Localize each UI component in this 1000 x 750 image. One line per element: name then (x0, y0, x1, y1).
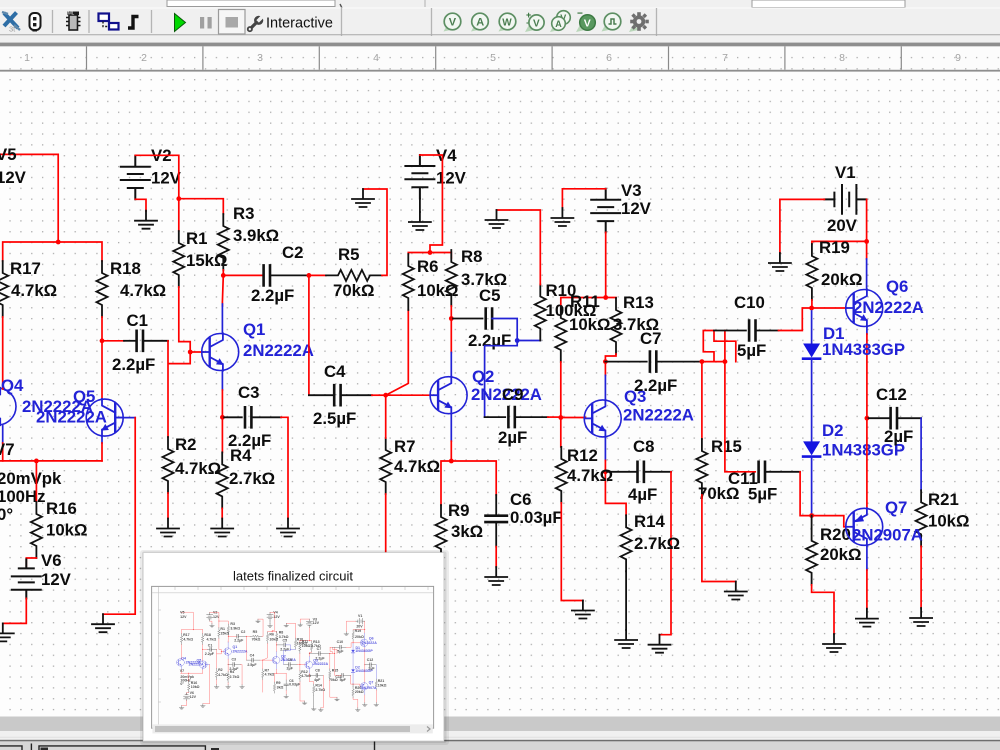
inset mini circuit (177, 610, 387, 711)
wire D2 to R20 node (811, 457, 813, 516)
node Q1 emitter junction (220, 415, 225, 420)
node R19 top junction (864, 239, 869, 244)
svg-text:12V: 12V (621, 199, 652, 218)
design tab 3 (211, 742, 375, 750)
resistor R10 100k (535, 281, 596, 341)
svg-text:C7: C7 (640, 329, 661, 348)
INSET PANEL (140, 550, 449, 745)
svg-text:20kΩ: 20kΩ (821, 270, 862, 289)
ground below R14 (615, 630, 637, 648)
transistor Q6 2N2222A (846, 277, 924, 327)
svg-text:10kΩ: 10kΩ (928, 512, 969, 531)
wire R12 top (560, 418, 562, 447)
transistor Q5 2N2222A mirrored (36, 387, 123, 436)
node C5/R10 blue junction (515, 338, 520, 343)
svg-text:12V: 12V (41, 570, 72, 589)
node V3 rail junction (603, 295, 608, 300)
icon pause (200, 17, 212, 29)
node Q2 emitter junction (449, 459, 454, 464)
resistor R5 70k (326, 245, 382, 300)
svg-text:R3: R3 (233, 204, 254, 223)
battery V2 (121, 146, 182, 199)
svg-text:1N4383GP: 1N4383GP (822, 340, 905, 359)
resistor R2 4.7k (163, 435, 222, 493)
svg-text:2.2µF: 2.2µF (251, 286, 294, 305)
capacitor C10 5uF (734, 293, 766, 360)
svg-text:12V: 12V (151, 169, 182, 188)
node C12 junction (865, 416, 870, 421)
svg-text:1: 1 (24, 52, 30, 64)
svg-text:Q5: Q5 (73, 387, 95, 406)
node V2 rail junction (176, 196, 181, 201)
wire R14 bottom to ground (625, 571, 627, 630)
wire C5 right blue to R10 bottom (485, 319, 541, 418)
wire R3 bottom to C2 (223, 270, 263, 275)
wire Q4 emitter to V7 rail (2, 426, 4, 461)
node R12/Q3 base junction (558, 415, 563, 420)
wire R18 to Q5 collector (101, 317, 103, 399)
ground below R21 (910, 608, 932, 626)
svg-text:V6: V6 (41, 551, 62, 570)
wire Q7 emitter top (866, 418, 868, 508)
transistor Q3 2N2222A (584, 387, 694, 437)
wire V2 minus jog to ground (135, 199, 146, 211)
svg-text:0.03µF: 0.03µF (510, 508, 563, 527)
svg-text:4.7kΩ: 4.7kΩ (11, 281, 57, 300)
wire R20 bottom to ground (812, 585, 834, 634)
wire Q3 collector (604, 362, 606, 400)
RULER (0, 46, 1000, 71)
svg-text:2.7kΩ: 2.7kΩ (634, 534, 680, 553)
wire V2 plus rail to R1 and R3 (135, 155, 223, 231)
wire C5 left lead (451, 318, 482, 320)
wire C8 right down to ground (644, 472, 671, 635)
icon hierarchy (99, 14, 119, 30)
wire C12 left lead (867, 417, 891, 419)
status divider line (0, 740, 1000, 742)
node Q3 emitter junction (603, 469, 608, 474)
svg-text:C4: C4 (324, 362, 346, 381)
ground below R15 (725, 582, 747, 600)
svg-text:C1: C1 (127, 311, 148, 330)
svg-text:R2: R2 (175, 435, 196, 454)
svg-text:Q2: Q2 (472, 367, 494, 386)
svg-text:10kΩ: 10kΩ (569, 315, 610, 334)
wire R8 bottom to C5 node (450, 306, 452, 319)
svg-text:4.7kΩ: 4.7kΩ (175, 459, 221, 478)
wire Q2 base lead (386, 394, 432, 396)
wire Q3 emitter (604, 437, 606, 472)
svg-text:D2: D2 (822, 421, 843, 440)
svg-text:2µF: 2µF (884, 427, 913, 446)
probe digital (602, 13, 621, 31)
node V5 rail junction (56, 240, 61, 245)
wire C3 left lead (222, 416, 241, 418)
svg-text:Q1: Q1 (243, 320, 265, 339)
svg-text:V1: V1 (835, 163, 856, 182)
svg-text:20mVpk: 20mVpk (0, 469, 62, 488)
ground below Q7 (856, 609, 878, 627)
svg-text:C2: C2 (282, 243, 303, 262)
probe plus-minus V (525, 10, 544, 32)
svg-text:R19: R19 (819, 238, 850, 257)
capacitor C11 5uF (728, 462, 777, 504)
svg-text:Q7: Q7 (885, 498, 907, 517)
wire V1 right down to Q6 collector (866, 199, 868, 289)
resistor R17 (0, 259, 57, 317)
svg-text:V7: V7 (0, 440, 15, 459)
svg-text:R9: R9 (448, 501, 469, 520)
wire R2 bottom to ground (167, 493, 169, 519)
svg-text:20kΩ: 20kΩ (820, 545, 861, 564)
svg-text:Interactive: Interactive (266, 16, 333, 32)
icon bird blue (2, 12, 20, 34)
svg-text:R7: R7 (394, 437, 415, 456)
ground right of R5 (352, 189, 374, 207)
svg-text:C3: C3 (238, 383, 259, 402)
svg-text:R4: R4 (230, 446, 252, 465)
icon connector (30, 13, 41, 32)
battery V1 20V horizontal (824, 163, 866, 235)
svg-text:V: V (533, 18, 540, 29)
wire Q5 base to ground (103, 418, 135, 615)
wire V7 rail (0, 460, 102, 462)
wire R16 to V6 (26, 558, 36, 566)
icon stop pressed (219, 10, 246, 35)
svg-text:V: V (449, 17, 457, 29)
svg-text:5µF: 5µF (748, 485, 777, 504)
wire R7 bottom hidden by inset (385, 494, 387, 556)
resistor R7 4.7k (380, 437, 440, 494)
resistor R18 (97, 259, 167, 317)
capacitor C7 2.2uF (634, 329, 677, 395)
wire V5 to R17/R18 rail (0, 154, 102, 261)
wire C4 right to Q2 base node (341, 394, 372, 396)
svg-text:Q4: Q4 (1, 376, 24, 395)
node C7/R15 junction (700, 359, 705, 364)
ground left of V1 (769, 253, 791, 271)
svg-text:2N2907A: 2N2907A (852, 526, 923, 545)
diode D2 1N4383GP (803, 359, 905, 460)
ground below V6 (0, 623, 14, 641)
wire V6 minus to ground (3, 598, 27, 623)
icon gear (629, 12, 649, 32)
svg-text:R16: R16 (46, 499, 77, 518)
wire C6 bottom to ground (495, 522, 497, 567)
wire R21 bottom to ground (920, 546, 922, 608)
svg-text:C6: C6 (510, 490, 531, 509)
svg-text:20V: 20V (827, 216, 858, 235)
wire R19 bottom to node (811, 300, 813, 308)
wire diagonal R6 bottom to Q2 base node (386, 310, 409, 395)
wire Q2 emitter (450, 414, 452, 461)
wire R17 to Q4 collector (2, 317, 4, 389)
svg-text:C10: C10 (734, 293, 765, 312)
wire V4 plus to R6/R8 rail (408, 155, 451, 258)
svg-text:4µF: 4µF (628, 485, 657, 504)
wire C6 top lead (495, 495, 497, 515)
transistor Q2 2N2222A (430, 367, 542, 414)
svg-text:70kΩ: 70kΩ (333, 281, 374, 300)
wire C10 staircase tangle (703, 331, 736, 362)
svg-text:2.7kΩ: 2.7kΩ (229, 469, 275, 488)
probe minus V dark (576, 9, 595, 33)
capacitor C1 2.2uF (112, 311, 155, 374)
design tab 1 (0, 746, 22, 750)
probe A (471, 13, 488, 31)
resistor R11 10k (555, 292, 610, 362)
svg-text:A: A (476, 17, 484, 29)
icon play (175, 14, 186, 32)
wire Q6 emitter down to C12 node (866, 327, 868, 418)
toolbar bottom edge (0, 34, 1000, 36)
svg-text:100Hz: 100Hz (0, 487, 46, 506)
svg-text:V: V (584, 18, 591, 30)
svg-text:A: A (555, 19, 562, 29)
svg-text:latets finalized circuit: latets finalized circuit (233, 569, 353, 584)
svg-text:2.2µF: 2.2µF (634, 376, 677, 395)
inset scrollbar (152, 724, 432, 733)
svg-text:2µF: 2µF (498, 428, 527, 447)
ground below C8 (649, 635, 671, 653)
wire C8 left lead (605, 471, 637, 473)
wire C7 node to C11 node (702, 361, 725, 363)
svg-text:R18: R18 (110, 259, 141, 278)
ground below C3 net (277, 519, 299, 537)
wire C10 left lead (714, 330, 746, 332)
node V4 rail junction (428, 250, 433, 255)
wire C12 right to R21 (897, 418, 921, 490)
capacitor C4 2.5uF (313, 362, 356, 428)
node R16 tap (34, 459, 39, 464)
wire C1 left lead (102, 340, 124, 342)
horizontal scrollbar band (0, 717, 1000, 732)
svg-text:12V: 12V (436, 169, 467, 188)
wire C7 leads (605, 361, 702, 363)
wire Q1 collector (221, 275, 224, 333)
design tab 2 (39, 746, 205, 750)
wire C9 right to R12 node (515, 416, 561, 418)
capacitor C8 4uF (628, 437, 657, 504)
svg-text:Q6: Q6 (886, 277, 908, 296)
battery V3 (591, 181, 651, 232)
wire V4 minus down (419, 199, 421, 212)
node Q2 base junction (383, 393, 388, 398)
svg-text:4.7kΩ: 4.7kΩ (394, 457, 440, 476)
wire Q1 emitter (221, 371, 223, 417)
wire Q3 base lead (561, 417, 586, 419)
resistor R3 3.9k (218, 204, 279, 270)
wire C3 right down to ground (251, 417, 288, 518)
svg-text:3t: 3t (9, 25, 16, 34)
node C11 junction (723, 359, 728, 364)
svg-text:R5: R5 (338, 245, 359, 264)
svg-text:2: 2 (141, 52, 147, 64)
wire R16 top (35, 461, 37, 502)
node D2/R20/Q7 base junction (809, 513, 814, 518)
wire V3 plus to ground (562, 189, 605, 208)
capacitor C12 2uF (876, 385, 913, 446)
svg-text:4: 4 (373, 52, 379, 64)
wire V1 left to ground (780, 199, 825, 253)
resistor R6 10k (403, 254, 459, 310)
svg-text:R6: R6 (417, 257, 438, 276)
probe A over V (550, 11, 570, 32)
svg-text:C9: C9 (502, 385, 523, 404)
svg-text:2N2222A: 2N2222A (623, 406, 694, 425)
svg-text:6: 6 (606, 52, 612, 64)
probe V (444, 13, 461, 31)
ground left of R10 (486, 210, 508, 228)
svg-text:4.7kΩ: 4.7kΩ (120, 281, 166, 300)
battery V6 (12, 551, 72, 598)
wire R4 bottom to ground (221, 508, 223, 518)
resistor R15 70k (696, 437, 741, 503)
svg-text:5: 5 (490, 52, 496, 64)
wire Q1 emitter to R4 (221, 417, 223, 452)
wire R15 top (701, 362, 703, 439)
wire C2 node down to C4 (308, 275, 310, 395)
voltage source V5 labels (0, 145, 27, 187)
design tab divider (30, 744, 32, 750)
toolbar separators (53, 8, 657, 36)
wire R1 bottom to Q1 base node (179, 287, 190, 352)
svg-text:2N2222A: 2N2222A (36, 408, 107, 427)
wire Q2 collector (450, 319, 452, 377)
resistor R21 10k (916, 490, 970, 546)
wire R15 bottom to ground (702, 495, 736, 582)
wire Q7 collector to ground (866, 546, 868, 609)
wire R19 top (812, 241, 867, 244)
svg-text:2.2µF: 2.2µF (112, 355, 155, 374)
battery V4 (405, 146, 466, 199)
resistor R12 4.7k (556, 446, 613, 503)
resistor R20 20k (806, 525, 861, 585)
wire R13 bottom jog to C7 node (605, 354, 616, 362)
svg-text:2.5µF: 2.5µF (313, 409, 356, 428)
node R3/C2 junction (221, 273, 226, 278)
svg-text:5µF: 5µF (737, 341, 766, 360)
wire Q3 emitter to R14 (605, 472, 626, 516)
capacitor C3 2.2uF (228, 383, 271, 450)
svg-text:R13: R13 (623, 293, 654, 312)
ground below R2 (157, 519, 179, 537)
svg-text:12V: 12V (0, 168, 27, 187)
svg-text:0°: 0° (0, 505, 13, 524)
inset white panel (143, 553, 444, 741)
wire Q4 collector stub (2, 388, 4, 391)
capacitor C6 0.03uF (486, 490, 563, 527)
ground below R20 (823, 634, 845, 652)
capacitor C9 2uF (498, 385, 527, 447)
svg-text:C8: C8 (633, 437, 654, 456)
inset shadow (140, 550, 449, 745)
wire Q1 base lead (190, 351, 203, 353)
wire Q6 base lead (812, 307, 847, 309)
svg-text:R11: R11 (570, 292, 600, 311)
wire C11 right to D2 node (765, 472, 812, 516)
node Q6 base/D1/R19 junction (809, 306, 814, 311)
inset image frame (152, 586, 434, 728)
ground left of V3 (551, 208, 573, 226)
ground below C6 (485, 567, 507, 585)
source V7 labels (0, 440, 62, 524)
svg-text:R21: R21 (928, 490, 959, 509)
svg-text:ML: ML (68, 11, 75, 16)
node R8/C5/Q2 collector junction (449, 316, 454, 321)
wire C9 left blue lead (485, 416, 506, 418)
resistor R19 20k (806, 238, 862, 300)
resistor R16 10k (31, 499, 88, 558)
resistor R8 3.7k (446, 247, 507, 306)
resistor R13 3.7k (611, 293, 660, 354)
BOTTOM BARS (0, 717, 1000, 750)
svg-text:W: W (502, 17, 512, 28)
svg-text:R15: R15 (711, 437, 742, 456)
wire Q5 emitter to V7 rail (101, 437, 103, 461)
node C1 tap (100, 338, 105, 343)
svg-text:R8: R8 (461, 247, 482, 266)
svg-text:10kΩ: 10kΩ (46, 521, 87, 540)
resistor R4 2.7k (217, 446, 275, 508)
svg-text:2.2µF: 2.2µF (468, 331, 511, 350)
svg-text:V3: V3 (621, 181, 642, 200)
ground below R4 (211, 519, 233, 537)
icon wrench + Interactive (244, 13, 265, 34)
icon chip (66, 11, 81, 30)
svg-text:7: 7 (722, 52, 728, 64)
wire C2 node to R5 (309, 274, 326, 276)
capacitor C5 2.2uF (468, 286, 511, 350)
wire R10 top to ground rail (497, 210, 541, 285)
svg-text:V5: V5 (0, 145, 17, 164)
ground below R12 (572, 601, 594, 619)
resistor R9 3k (436, 501, 484, 561)
transistor Q7 2N2907A pnp (846, 498, 923, 546)
window divider band (0, 43, 1000, 47)
capacitor C2 2.2uF (251, 243, 303, 305)
svg-text:R12: R12 (567, 446, 598, 465)
node Q1 base junction (188, 350, 193, 355)
wire C11 drop (725, 362, 755, 472)
wire R11 bottom to R12 node (560, 362, 562, 418)
resistor R14 2.7k (621, 512, 681, 571)
wire C2 right lead (270, 274, 309, 276)
svg-text:R1: R1 (186, 229, 207, 248)
svg-text:C12: C12 (876, 385, 907, 404)
svg-text:3kΩ: 3kΩ (451, 522, 483, 541)
svg-text:9: 9 (955, 52, 961, 64)
ground below V4 (409, 212, 431, 230)
probe W (499, 13, 516, 31)
svg-text:R14: R14 (634, 512, 665, 531)
top partial combobox row (167, 0, 905, 8)
svg-text:2N2222A: 2N2222A (243, 341, 314, 360)
wire R12 bottom to ground (561, 503, 583, 601)
wire R20 top lead (811, 516, 813, 529)
svg-text:8: 8 (839, 52, 845, 64)
wire V3 minus to R11/R13 rail (561, 232, 616, 306)
transistor Q4 2N2222A (0, 376, 93, 425)
TOOLBAR (0, 0, 1000, 46)
node C7/Q3 collector junction (603, 359, 608, 364)
node C2/R5/C4 junction (307, 273, 312, 278)
svg-text:4.7kΩ: 4.7kΩ (567, 466, 613, 485)
resistor R1 15k (173, 229, 227, 287)
ground for Q5 base net (92, 614, 114, 632)
wire C10 right to Q6 base node (756, 308, 812, 331)
svg-text:R17: R17 (10, 259, 41, 278)
